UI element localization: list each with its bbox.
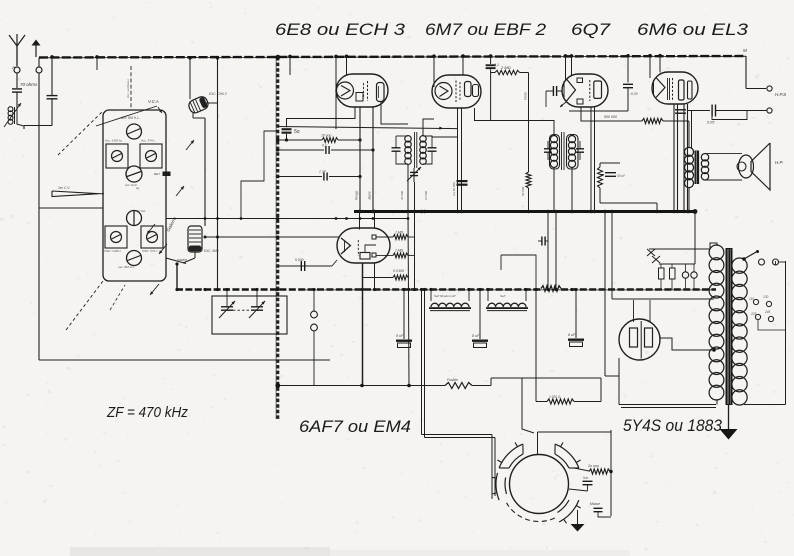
earth terminal xyxy=(36,67,42,73)
svg-text:EXC. 6M6: EXC. 6M6 xyxy=(204,249,219,253)
svg-text:Acc. oscillateur: Acc. oscillateur xyxy=(126,78,130,99)
rectifier box left edge xyxy=(618,358,620,405)
dash pointer bottom-left xyxy=(66,281,103,330)
svg-text:Ca 50 000: Ca 50 000 xyxy=(452,182,456,196)
selector tap 110 xyxy=(753,299,758,304)
wire lamp bottom rail xyxy=(659,263,695,265)
svg-text:70 ohms: 70 ohms xyxy=(20,82,38,87)
svg-text:1 MΩ: 1 MΩ xyxy=(395,231,404,235)
dash pointer inner xyxy=(110,285,125,310)
wire exc top to vertical xyxy=(192,113,194,118)
tube V2 envelope xyxy=(432,75,481,108)
cathode bypass cap 6M6 xyxy=(675,109,686,111)
svg-text:Fusible: Fusible xyxy=(447,378,458,382)
wire V1 cathode step route xyxy=(287,107,356,127)
wire to HPS upper xyxy=(746,88,766,90)
tube V4 screen rect xyxy=(688,81,693,99)
svg-text:OSC. 574 c: OSC. 574 c xyxy=(142,249,158,253)
svg-text:osc. BM H.L.: osc. BM H.L. xyxy=(118,265,135,269)
bus end blob xyxy=(693,209,698,214)
junction dots on top bus xyxy=(50,55,54,59)
tube V4 envelope xyxy=(652,72,698,104)
tube V2 triode-hexode chevron xyxy=(435,83,452,100)
svg-text:245: 245 xyxy=(764,310,771,314)
resistor 500k plate load xyxy=(642,118,663,123)
tube V3 grid stopper cap xyxy=(552,86,554,96)
wire mauve drop xyxy=(176,264,178,290)
wire into rectifier box top xyxy=(612,298,714,300)
transformer bottom wire xyxy=(716,399,718,405)
capacitor 0,1 top xyxy=(486,64,496,66)
capacitor 50pF xyxy=(282,128,292,130)
junction dots on HT- bus xyxy=(175,288,178,291)
MF1 core xyxy=(414,132,416,168)
svg-text:0,1: 0,1 xyxy=(322,144,327,148)
electrolytic cap 8uF no1 xyxy=(403,290,405,339)
svg-text:5o: 5o xyxy=(294,129,300,135)
tube V1 bottom wire grid2 xyxy=(372,107,374,212)
MF2 secondary return xyxy=(571,167,573,212)
tube V2 plate route to MF2 xyxy=(475,108,555,136)
MF1 primary coil xyxy=(405,136,412,143)
switch contact circle 2 xyxy=(691,272,697,278)
padding coil left square xyxy=(106,144,128,168)
tube V2 top wires xyxy=(433,57,435,87)
tube V5 top stubs xyxy=(359,212,361,230)
tube V3 triode chevron xyxy=(567,79,576,101)
svg-text:1 uF: 1 uF xyxy=(319,170,327,174)
svg-text:M: M xyxy=(743,48,747,53)
HT negative bus wire y289 right part xyxy=(561,288,716,290)
ground arrow mains xyxy=(720,429,738,440)
arrow through antenna coil xyxy=(4,103,21,127)
svg-text:Acc. 574 c: Acc. 574 c xyxy=(140,139,156,143)
selector taps wire xyxy=(758,320,786,330)
wire cap to plate route elbow xyxy=(475,120,491,122)
tube V5 chevron xyxy=(341,238,351,254)
svg-text:6E8 ou ECH 3: 6E8 ou ECH 3 xyxy=(275,21,406,39)
resistor 50000 vertical xyxy=(526,172,531,188)
wire cap to cathode drop xyxy=(329,176,360,178)
tube V3 grid dashes xyxy=(589,80,591,101)
wire exc top right lead xyxy=(206,102,218,104)
wire lamp top xyxy=(649,248,710,250)
svg-text:130: 130 xyxy=(763,295,769,299)
svg-text:2o ooo: 2o ooo xyxy=(587,464,599,468)
output transformer core xyxy=(695,151,700,185)
svg-text:8 uF: 8 uF xyxy=(568,333,576,337)
ground bus wire y211 xyxy=(354,210,695,213)
terminal HPS lower xyxy=(767,108,772,113)
capacitor 1uF xyxy=(323,173,325,181)
MF2 secondary box xyxy=(567,135,579,170)
svg-text:8 uF: 8 uF xyxy=(472,334,480,338)
padder dashed link xyxy=(233,309,251,311)
svg-text:0,05: 0,05 xyxy=(631,92,638,96)
ground return line y218 xyxy=(166,218,409,220)
eye claw SE xyxy=(559,500,579,522)
wire bus end drop xyxy=(694,212,696,265)
speaker magnet xyxy=(739,155,754,178)
MF2 primary box xyxy=(550,135,560,170)
svg-text:10 ooo: 10 ooo xyxy=(321,134,331,138)
svg-text:0,1: 0,1 xyxy=(494,63,499,67)
eye claw W xyxy=(496,473,499,500)
svg-text:25 000: 25 000 xyxy=(400,190,404,201)
eye ground stem xyxy=(577,510,579,524)
MF1 secondary coil xyxy=(420,136,427,143)
HT wire y385 xyxy=(278,385,445,387)
eye top edge xyxy=(538,431,612,433)
vbus top junction xyxy=(275,55,280,60)
svg-text:50 uF: 50 uF xyxy=(617,174,626,178)
tube V3 plate load wire xyxy=(581,107,642,121)
svg-text:225: 225 xyxy=(750,312,757,316)
exc coil 6M6 cylinder xyxy=(188,226,202,252)
wire vertical x217 xyxy=(217,58,219,290)
stub x97 xyxy=(96,58,98,70)
resistor 10000 ohms xyxy=(322,138,338,143)
wire antenna to capacitor xyxy=(16,73,18,88)
chassis frame top wire xyxy=(39,207,103,209)
tube V4 anode plate xyxy=(679,80,685,100)
svg-text:50 000: 50 000 xyxy=(521,186,525,196)
tube V6 anode plate 1 xyxy=(630,328,638,347)
svg-text:0,5 MΩ: 0,5 MΩ xyxy=(393,269,404,273)
capacitor antenna series xyxy=(12,88,22,90)
eye anode resistor 20000 xyxy=(574,468,589,471)
mains bottom wire xyxy=(744,404,786,406)
tube V4 grid dashes xyxy=(672,78,674,100)
selector tap 130 xyxy=(766,301,771,306)
trimmer osc top xyxy=(127,211,142,226)
terminal HPS upper xyxy=(767,86,772,91)
padder box outline xyxy=(212,296,287,334)
selector terminal a xyxy=(759,259,765,265)
switch point upper xyxy=(311,311,318,318)
tube V5 cathode drop dark xyxy=(362,263,364,386)
wire x612 down xyxy=(611,212,613,300)
rectifier box bottom double line xyxy=(619,404,716,406)
drive arrow 4 xyxy=(186,140,194,150)
tube V1 bottom wire cathode xyxy=(359,107,361,212)
junction dots on ground bus xyxy=(358,210,361,213)
HT negative bus wire y289 xyxy=(176,288,541,290)
switch contact circle 1 xyxy=(682,272,688,278)
svg-text:Acc. BM H.L.: Acc. BM H.L. xyxy=(120,116,140,120)
tube V1 envelope xyxy=(336,74,388,107)
svg-text:H.P.S: H.P.S xyxy=(775,92,786,97)
dash pointer VCA line xyxy=(96,106,157,126)
tube V3 envelope xyxy=(562,74,608,107)
tube V6 cathode wire xyxy=(660,338,714,350)
svg-text:110: 110 xyxy=(749,297,754,301)
MF2 primary capacitor xyxy=(544,148,552,150)
svg-text:6M7 ou EBF 2: 6M7 ou EBF 2 xyxy=(425,21,546,39)
wire primary bottom to bus xyxy=(688,187,690,212)
svg-text:Jaune: Jaune xyxy=(368,191,372,200)
tube V5 grid box xyxy=(360,253,370,260)
vertical chassis bus wire xyxy=(276,57,279,419)
fuse box 1 xyxy=(659,268,665,279)
ground stem xyxy=(728,405,730,429)
svg-text:H.P.: H.P. xyxy=(775,160,783,165)
MF2 core xyxy=(561,132,563,170)
tube V1 anode to MF1 xyxy=(381,102,408,125)
wire verte to ground bus xyxy=(528,188,530,212)
tube V5 grid dashes xyxy=(357,240,359,256)
wire grid line 6Q7 to cap xyxy=(569,110,628,112)
cathode bypass capacitor xyxy=(605,172,616,174)
wire plate load to output transformer xyxy=(663,120,689,122)
tube V4 cathode wire pair A xyxy=(673,104,675,212)
tuning unit box xyxy=(103,110,166,281)
tube V2 grid wire from MF1 xyxy=(432,136,458,138)
svg-text:OSC. 1448 c: OSC. 1448 c xyxy=(104,249,122,253)
MF2 secondary coil xyxy=(568,136,575,143)
tube V2 anode plates xyxy=(465,82,472,97)
tone loop rectangle xyxy=(712,111,747,120)
wire coil node to grid line xyxy=(24,125,52,127)
HT wire y385 part2 xyxy=(472,385,491,387)
junction dots y385 xyxy=(276,383,280,387)
cathode resistor 6Q7 xyxy=(598,167,603,188)
tube V6 anode plate 2 xyxy=(645,328,653,347)
earth terminal arrow xyxy=(35,44,37,57)
eye top feed xyxy=(522,378,534,433)
wire vertical x241 xyxy=(241,131,278,219)
eye claw tabs xyxy=(497,460,501,463)
tube V4 cathode wire pair B xyxy=(683,104,685,212)
HT wire y378 xyxy=(491,377,601,379)
wire eye step xyxy=(501,255,536,290)
tube V4 grid capacitor xyxy=(627,57,629,83)
wire primary top xyxy=(710,243,717,249)
grid capacitor 5000 xyxy=(278,265,332,267)
wire y176 xyxy=(278,176,322,178)
svg-text:ZF = 470 kHz: ZF = 470 kHz xyxy=(106,404,188,421)
resistor 1 Mohm xyxy=(376,236,393,238)
pilot lamp X1 xyxy=(647,249,655,256)
eye left enclosure xyxy=(491,435,493,500)
tube V4 chevron xyxy=(656,78,665,98)
mains right vertical xyxy=(785,261,787,405)
svg-text:5Y4S ou 1883: 5Y4S ou 1883 xyxy=(623,417,723,435)
tube V1 grid dashes xyxy=(367,81,369,101)
tube V6 envelope xyxy=(619,319,660,360)
tube V5 inner link xyxy=(365,245,376,253)
speaker wires xyxy=(705,153,742,155)
svg-text:2 MΩ: 2 MΩ xyxy=(500,65,511,70)
tuning gang wedge 1er CV xyxy=(52,191,99,197)
svg-text:2 MΩ: 2 MΩ xyxy=(394,249,404,253)
svg-text:6AF7 ou EM4: 6AF7 ou EM4 xyxy=(299,418,411,436)
wire 50pF to AVC resistor line xyxy=(286,134,288,140)
svg-text:1er C.V.: 1er C.V. xyxy=(58,186,70,190)
svg-text:2g: 2g xyxy=(135,186,140,190)
stub x290 xyxy=(289,58,291,76)
tube V5 plate tab lower xyxy=(372,253,376,257)
resistor in HT- bus xyxy=(541,286,561,292)
padder trimmer 1 xyxy=(221,306,233,308)
MF2 secondary capacitor xyxy=(576,148,584,150)
MF2 primary return xyxy=(553,167,555,212)
resistor 2 Mohm xyxy=(491,72,495,74)
wire into rectifier left xyxy=(605,375,619,377)
tube V1 top wires xyxy=(335,58,337,130)
switch stub bottom xyxy=(313,331,315,386)
tube V1 cathode box xyxy=(356,93,363,102)
speaker cone xyxy=(751,143,770,190)
switch point lower xyxy=(311,324,318,331)
wire V5 grid entry xyxy=(205,236,339,238)
svg-text:Masse: Masse xyxy=(590,502,600,506)
selector wire xyxy=(775,261,777,265)
svg-text:6Q7: 6Q7 xyxy=(571,21,611,39)
output transformer primary xyxy=(684,147,693,156)
wire x605 down xyxy=(604,212,606,377)
wire bus to exc coil xyxy=(189,58,191,99)
top HT+ bus wire xyxy=(39,56,746,58)
selector tap 225 xyxy=(755,314,760,319)
tube V5 envelope xyxy=(337,228,390,263)
tone capacitor 0,05 wire xyxy=(688,110,710,112)
tube V2 cathode bypass capacitor xyxy=(457,180,468,182)
mains transformer core xyxy=(726,248,733,405)
wire top bus drop x52 xyxy=(51,58,53,96)
eye cathode capacitor xyxy=(583,480,593,482)
electrolytic cap 8uF no2 xyxy=(479,290,481,339)
padding coil right square xyxy=(140,144,162,168)
drive arrow 5 xyxy=(150,284,159,295)
capacitor 0,1 xyxy=(325,146,327,154)
svg-text:V.C.A: V.C.A xyxy=(148,99,159,104)
capacitor aerial coupling xyxy=(47,95,58,97)
chassis frame bottom wire xyxy=(39,359,330,361)
drive arrow 1 xyxy=(147,224,155,234)
MF1 secondary return wire xyxy=(414,182,416,290)
wire resistor to verte xyxy=(520,72,529,74)
MF1 trimmer xyxy=(413,168,415,182)
RET tap mark xyxy=(163,172,171,177)
dash-dot drop line xyxy=(130,66,132,110)
eye right enclosure xyxy=(610,430,612,516)
wire cap down to plate route xyxy=(490,69,492,120)
MF1 primary return wire xyxy=(407,164,409,212)
trimmer RF top xyxy=(127,124,142,139)
trimmer RF bottom xyxy=(126,166,142,182)
voltage selector lever xyxy=(744,252,757,260)
tube V1 triode section xyxy=(337,82,354,99)
wire cap to drop xyxy=(331,149,373,151)
padder trimmer 2 xyxy=(251,306,263,308)
tube V3 top wires xyxy=(565,57,567,80)
mains transformer primary winding xyxy=(709,245,724,260)
wire box to mauve node xyxy=(166,258,186,264)
trimmer osc bottom xyxy=(127,251,142,266)
resistor 2 Mohm V5 xyxy=(376,254,393,256)
tube V5 side drop xyxy=(374,263,376,290)
tube V6 center line xyxy=(640,321,642,359)
AVC line to V2 grid xyxy=(278,127,458,129)
tube V3 cathode wires xyxy=(590,107,592,212)
svg-text:Verte: Verte xyxy=(524,92,528,100)
svg-text:Self filtration HP: Self filtration HP xyxy=(434,294,456,298)
drive arrow 2 xyxy=(159,244,167,254)
tube V3 grid tab top xyxy=(577,78,583,83)
wire vertical x205 xyxy=(204,118,206,226)
filter choke 2 xyxy=(488,303,526,307)
svg-text:Plg Gd: Plg Gd xyxy=(136,209,146,213)
tube V4 grid lines xyxy=(667,78,669,100)
tube V4 top wires xyxy=(649,56,651,78)
filter choke 1 xyxy=(431,303,469,307)
magic eye target circle xyxy=(510,455,569,514)
antenna coil transformer xyxy=(8,107,13,112)
resistor 0,5 Mohm V5 xyxy=(363,277,394,279)
eye feed wire pair vertical xyxy=(421,290,423,435)
svg-text:Rouge: Rouge xyxy=(355,190,359,200)
vbus y385 junction xyxy=(275,383,280,388)
selector tap 245 xyxy=(768,316,773,321)
earth terminal bus stub xyxy=(38,58,40,67)
svg-text:5 000: 5 000 xyxy=(295,258,304,262)
svg-text:5oo: 5oo xyxy=(583,476,589,480)
wire AVC y140 xyxy=(278,139,322,141)
tube V5 plate tab upper xyxy=(372,235,376,239)
pilot lamp X2 xyxy=(652,256,660,263)
osc coil left square xyxy=(105,226,127,248)
fusible resistor xyxy=(445,383,472,389)
tube V2 bottom wires cathode pair xyxy=(457,108,459,212)
antenna terminal xyxy=(14,67,20,73)
wire M drop xyxy=(745,56,747,89)
mains transformer secondary winding xyxy=(732,258,747,273)
drive arrow 3 xyxy=(176,186,184,196)
wire primary top second lead xyxy=(691,111,693,149)
wire tone cap to HPS terminal xyxy=(716,110,767,112)
wire exc coil bottom xyxy=(194,252,196,258)
svg-text:6M6 ou EL3: 6M6 ou EL3 xyxy=(637,21,749,39)
svg-text:10 000: 10 000 xyxy=(424,190,428,200)
svg-text:500 000: 500 000 xyxy=(604,115,617,119)
selector terminal b xyxy=(773,259,779,265)
switch stub top xyxy=(313,290,315,311)
resistor 1000 ohms heater xyxy=(536,401,547,403)
capacitor 0,05 tone xyxy=(711,105,713,117)
wire cathode to bus xyxy=(600,202,657,204)
wire verte vertical xyxy=(528,73,530,173)
wire x601 drop xyxy=(600,378,602,402)
tube V1 anode plate xyxy=(377,83,385,102)
svg-text:1 000 Ω: 1 000 Ω xyxy=(549,395,561,399)
dial excitation coil top xyxy=(187,95,210,115)
svg-text:0,05: 0,05 xyxy=(707,121,715,125)
tube V2 grid dashes xyxy=(455,81,457,103)
electrolytic cap 8uF no3 xyxy=(575,290,577,338)
dash pointer top-left xyxy=(58,111,103,155)
eye ground arrow xyxy=(571,524,585,532)
wire bus drop x491 xyxy=(490,57,492,64)
osc coil right square xyxy=(141,226,163,248)
MF1 primary tuning capacitor xyxy=(392,147,401,149)
output transformer secondary xyxy=(701,154,708,161)
antenna xyxy=(16,46,18,66)
wire y150 xyxy=(278,149,324,151)
svg-text:Acc. 1400 kc: Acc. 1400 kc xyxy=(104,139,123,143)
tube V3 anode plate xyxy=(594,81,602,98)
tube V3 grid tab bottom xyxy=(577,99,583,104)
